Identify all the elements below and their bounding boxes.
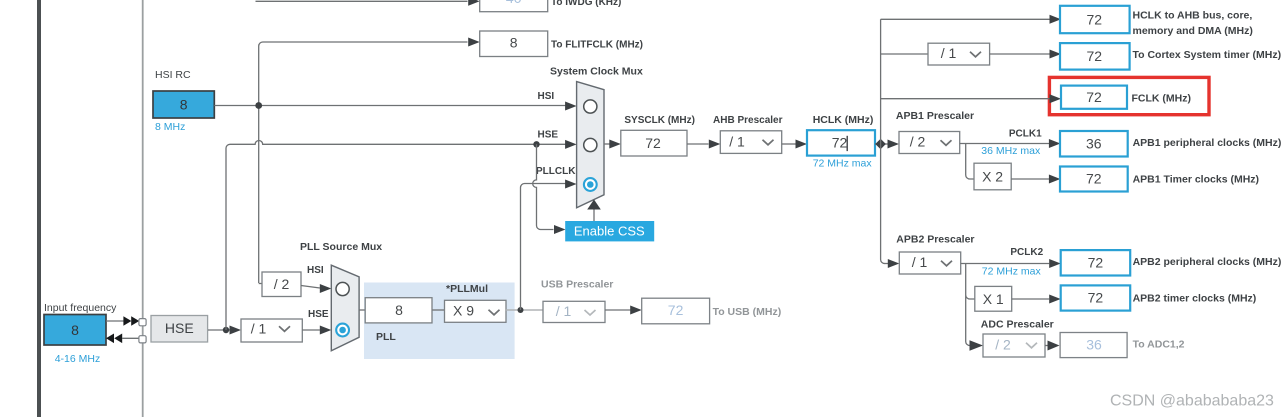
svg-text:System Clock Mux: System Clock Mux — [550, 65, 643, 77]
wire /2 to PLL source mux — [301, 286, 320, 289]
wire ADC prescaler to output — [1045, 345, 1048, 347]
wire input to HSE (upper) — [106, 320, 124, 322]
ADC prescaler dropdown (disabled) — [983, 334, 1045, 357]
wire APB1 prescaler to PCLK1 — [960, 143, 1049, 145]
svg-text:Input frequency: Input frequency — [44, 302, 117, 314]
junction dot CSS branch — [533, 141, 539, 147]
arrow into APB2 timer box — [1049, 295, 1061, 304]
arrow into mux HSI input — [565, 102, 577, 111]
wire HSI to system clock mux — [214, 105, 565, 107]
arrow into FCLK box — [1050, 94, 1062, 103]
svg-text:X 2: X 2 — [982, 168, 1003, 184]
HCLK to AHB output box — [1060, 6, 1130, 33]
svg-text:/ 1: / 1 — [912, 254, 928, 270]
chevron — [279, 326, 290, 331]
wire to HCLK AHB output — [881, 18, 1050, 20]
wire HSE to input (lower) — [122, 337, 139, 339]
svg-text:PCLK1: PCLK1 — [1009, 129, 1042, 140]
svg-text:36 MHz max: 36 MHz max — [981, 145, 1041, 157]
svg-text:/ 1: / 1 — [729, 134, 745, 150]
HSI RC box — [153, 91, 214, 118]
arrow into APB2 prescaler — [888, 259, 900, 268]
svg-text:HSI RC: HSI RC — [155, 69, 191, 81]
svg-text:PLL: PLL — [376, 331, 396, 343]
svg-text:X 9: X 9 — [453, 302, 474, 318]
svg-text:72: 72 — [668, 302, 684, 318]
svg-text:PLL Source Mux: PLL Source Mux — [300, 241, 382, 253]
wire to cortex prescaler — [881, 53, 928, 55]
wire mux to SYSCLK — [604, 143, 610, 145]
svg-text:HSE: HSE — [308, 309, 329, 320]
wire PLL out to USB prescaler (disabled, light) — [505, 309, 544, 311]
HCLK value box (focused) — [807, 130, 875, 155]
svg-text:AHB Prescaler: AHB Prescaler — [713, 115, 783, 126]
svg-text:72: 72 — [1087, 11, 1103, 27]
ADC output box (disabled) — [1060, 333, 1127, 358]
svg-text:HCLK to AHB bus, core,: HCLK to AHB bus, core, — [1133, 9, 1253, 21]
USB output box (disabled) — [642, 298, 710, 324]
cortex /1 prescaler dropdown — [928, 43, 990, 65]
wire 8 to X9 — [433, 309, 445, 311]
wire HSE up to system clock mux (with hop) — [226, 141, 566, 331]
svg-text:USB Prescaler: USB Prescaler — [541, 278, 613, 290]
wire cortex prescaler to output — [990, 53, 1050, 55]
double arrow left 2 — [114, 334, 122, 344]
IWDG value box (clipped at top) — [480, 0, 548, 12]
svg-text:72: 72 — [832, 135, 848, 151]
X1 multiplier box — [975, 286, 1012, 311]
svg-text:4-16 MHz: 4-16 MHz — [55, 353, 101, 365]
wire to FCLK output — [881, 98, 1050, 100]
svg-text:8 MHz: 8 MHz — [155, 121, 185, 133]
svg-text:APB1 peripheral clocks (MHz): APB1 peripheral clocks (MHz) — [1133, 137, 1282, 149]
wire X1 to APB2 timer box — [1012, 298, 1049, 300]
mux radio PLLCLK (selected) — [584, 178, 597, 191]
wire X2 to APB1 timer box — [1011, 178, 1049, 180]
svg-text:APB1 Prescaler: APB1 Prescaler — [896, 110, 974, 122]
input frequency box — [44, 315, 106, 346]
wire HSI to FLITFCLK — [259, 42, 468, 283]
svg-text:8: 8 — [180, 97, 188, 113]
svg-text:HSI: HSI — [538, 91, 555, 102]
pin square upper — [139, 319, 146, 326]
input boundary line — [142, 0, 144, 417]
AHB prescaler dropdown — [720, 131, 781, 154]
wire APB2 prescaler to PCLK2 — [961, 263, 1049, 265]
X2 multiplier box — [974, 163, 1011, 190]
svg-text:APB1 Timer clocks (MHz): APB1 Timer clocks (MHz) — [1133, 173, 1259, 185]
chip boundary line — [37, 0, 41, 417]
arrow into ADC prescaler — [970, 340, 984, 351]
svg-text:8: 8 — [510, 35, 518, 51]
wire SYSCLK to AHB prescaler — [687, 143, 709, 145]
svg-text:/ 1: / 1 — [251, 321, 267, 337]
arrow into FLITFCLK box — [468, 38, 480, 47]
svg-text:72 MHz max: 72 MHz max — [982, 266, 1042, 278]
svg-text:72 MHz max: 72 MHz max — [813, 158, 873, 170]
svg-text:72: 72 — [1087, 48, 1103, 64]
mux radio HSE (unselected) — [584, 138, 597, 151]
svg-text:To ADC1,2: To ADC1,2 — [1133, 339, 1185, 351]
svg-text:X 1: X 1 — [983, 291, 1004, 307]
arrow into pll mux HSE — [320, 326, 332, 335]
main vertical bus — [881, 19, 885, 263]
arrow into APB2 peripheral box — [1049, 259, 1061, 268]
arrow into Enable CSS — [554, 225, 566, 234]
wire CSS branch down (with hop) — [533, 144, 554, 229]
wire main bus to APB2 prescaler — [885, 263, 888, 265]
svg-text:40: 40 — [506, 0, 522, 6]
PLL input value box — [365, 298, 432, 323]
svg-text:/ 2: / 2 — [274, 276, 290, 292]
svg-text:72: 72 — [1088, 254, 1104, 270]
svg-text:72: 72 — [1086, 89, 1102, 105]
svg-text:36: 36 — [1086, 337, 1102, 353]
text cursor — [846, 136, 848, 151]
arrow into mux PLLCLK input — [565, 180, 577, 189]
APB2 prescaler dropdown — [899, 252, 960, 274]
arrow into IWDG box — [468, 0, 480, 6]
arrow into APB1 peripheral box — [1049, 139, 1061, 148]
wire mux to PLL input box — [359, 309, 365, 311]
svg-text:Enable CSS: Enable CSS — [574, 223, 645, 238]
svg-text:HCLK (MHz): HCLK (MHz) — [813, 114, 874, 126]
svg-text:PCLK2: PCLK2 — [1010, 247, 1043, 258]
svg-text:/ 2: / 2 — [910, 134, 926, 150]
svg-text:To FLITFCLK (MHz): To FLITFCLK (MHz) — [551, 40, 643, 51]
arrow into /1 prescaler — [230, 326, 242, 335]
arrow into mux HSE input — [565, 140, 577, 149]
double arrow left 1 — [106, 334, 114, 344]
wire branch to X1 and ADC — [966, 264, 975, 346]
wire Enable CSS up arrow — [593, 208, 595, 221]
SYSCLK value box — [621, 130, 687, 156]
svg-text:8: 8 — [395, 302, 403, 318]
svg-text:APB2 Prescaler: APB2 Prescaler — [896, 233, 974, 245]
junction dot HSI — [255, 102, 262, 109]
PLL source mux body — [331, 265, 359, 351]
USB prescaler dropdown (disabled) — [543, 301, 605, 322]
FCLK output box — [1061, 86, 1127, 109]
svg-text:HSE: HSE — [165, 320, 194, 336]
svg-text:8: 8 — [71, 322, 79, 338]
mux radio HSI (unselected) — [584, 100, 597, 113]
svg-text:CSDN @ababababa23: CSDN @ababababa23 — [1110, 393, 1274, 410]
arrow into USB output box — [630, 306, 642, 315]
system clock mux body — [577, 82, 604, 208]
svg-text:APB2 peripheral clocks (MHz): APB2 peripheral clocks (MHz) — [1133, 256, 1282, 268]
svg-text:/ 1: / 1 — [556, 303, 572, 319]
APB2 peripheral output box — [1061, 250, 1131, 275]
svg-text:To IWDG (KHz): To IWDG (KHz) — [551, 0, 621, 8]
arrow into AHB prescaler — [709, 140, 721, 149]
svg-text:/ 1: / 1 — [941, 45, 957, 61]
wire PLLCLK up to system clock mux — [521, 184, 566, 311]
APB1 peripheral output box — [1060, 131, 1128, 157]
FLITFCLK value box — [480, 31, 548, 57]
pin square lower — [139, 336, 146, 343]
wire to IWDG — [256, 0, 468, 2]
red highlight rectangle — [1049, 77, 1209, 114]
wire USB prescaler to output — [605, 309, 631, 311]
HSE /1 prescaler dropdown — [241, 319, 302, 342]
svg-text:*PLLMul: *PLLMul — [446, 283, 488, 295]
svg-text:72: 72 — [1086, 171, 1102, 187]
svg-text:APB2 timer clocks (MHz): APB2 timer clocks (MHz) — [1133, 293, 1257, 305]
wire HSE to prescaler — [208, 329, 230, 331]
svg-text:To USB (MHz): To USB (MHz) — [713, 306, 782, 318]
svg-text:HSE: HSE — [538, 130, 559, 141]
wire HCLK to APB1 prescaler — [875, 143, 888, 145]
junction dot HSE — [223, 327, 229, 333]
svg-text:memory and DMA (MHz): memory and DMA (MHz) — [1133, 25, 1253, 37]
HSE box — [151, 316, 208, 343]
arrow into pll mux HSI — [320, 284, 332, 293]
Enable CSS button — [565, 221, 654, 241]
svg-text:ADC Prescaler: ADC Prescaler — [981, 318, 1054, 330]
PLLMul X9 dropdown — [445, 300, 507, 322]
svg-text:36: 36 — [1086, 135, 1102, 151]
wire AHB to HCLK — [782, 143, 796, 145]
junction diamond — [875, 139, 886, 150]
wire /1 to PLL source mux — [302, 329, 320, 331]
svg-text:To Cortex System timer (MHz): To Cortex System timer (MHz) — [1133, 49, 1282, 61]
arrow into SYSCLK box — [609, 140, 621, 149]
pll mux radio HSE (selected) — [336, 324, 349, 337]
pll mux radio HSI (unselected) — [336, 282, 349, 295]
APB1 timer output box — [1060, 167, 1128, 192]
/2 divider box — [262, 272, 301, 297]
double arrow right 1 — [123, 316, 131, 326]
arrow into APB1 timer box — [1049, 175, 1061, 184]
wire vertical into /2 — [259, 283, 262, 285]
cortex timer output box — [1060, 43, 1130, 70]
APB1 prescaler dropdown — [899, 132, 960, 154]
PLL shaded region — [364, 283, 515, 360]
svg-text:72: 72 — [1088, 290, 1104, 306]
svg-text:PLLCLK: PLLCLK — [536, 166, 576, 177]
svg-text:FCLK (MHz): FCLK (MHz) — [1132, 92, 1191, 104]
arrow into HCLK AHB box — [1050, 15, 1062, 24]
arrow into cortex timer box — [1050, 50, 1062, 59]
double arrow right 2 — [131, 316, 139, 326]
svg-text:/ 2: / 2 — [995, 337, 1011, 353]
arrow into ADC output box — [1048, 341, 1060, 351]
APB2 timer output box — [1061, 285, 1131, 310]
svg-text:72: 72 — [645, 135, 661, 151]
arrow into APB1 prescaler — [888, 140, 900, 149]
svg-text:SYSCLK (MHz): SYSCLK (MHz) — [624, 115, 695, 126]
wire branch to X2 — [966, 144, 974, 180]
svg-text:HSI: HSI — [307, 265, 324, 276]
arrow into HCLK box — [796, 140, 808, 149]
junction dot PLL out — [518, 307, 524, 313]
